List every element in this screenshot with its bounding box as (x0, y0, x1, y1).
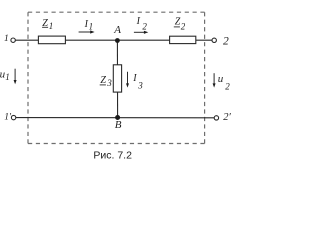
svg-text:I: I (132, 73, 137, 84)
terminal 1' (circle) (11, 115, 15, 119)
svg-text:3: 3 (137, 81, 143, 91)
wire bottom conductor 1' to 2' (16, 117, 215, 119)
label Z1 (42, 18, 53, 31)
svg-text:2′: 2′ (223, 112, 231, 123)
wire top conductor 1 to 2 (15, 39, 212, 41)
wire middle vertical branch A to B (116, 40, 118, 117)
svg-text:I: I (136, 16, 141, 27)
svg-text:1: 1 (89, 22, 94, 32)
terminal 1 (circle) (11, 38, 15, 42)
svg-text:3: 3 (106, 78, 112, 88)
label I3 with current arrow (126, 72, 143, 91)
impedance Z2 (box) (170, 36, 196, 43)
svg-text:2: 2 (181, 22, 186, 32)
svg-text:A: A (113, 24, 121, 36)
label u1 with voltage arrow (0, 68, 17, 84)
node B (junction dot) (115, 115, 120, 120)
impedance Z3 (box) (113, 65, 121, 92)
label u2 with voltage arrow (213, 73, 231, 92)
impedance Z1 (box) (38, 36, 65, 44)
svg-text:1′: 1′ (4, 112, 12, 122)
svg-text:2: 2 (225, 82, 230, 92)
terminal 2' (circle) (214, 116, 218, 120)
svg-text:2: 2 (142, 22, 147, 32)
label I1 with current arrow (79, 19, 95, 34)
svg-text:B: B (115, 119, 122, 131)
label Z3 (100, 75, 113, 88)
svg-text:2: 2 (223, 35, 229, 47)
dashed two-port network boundary box (28, 12, 205, 143)
label Z2 (174, 17, 186, 32)
svg-text:Рис. 7.2: Рис. 7.2 (93, 150, 132, 162)
svg-text:1: 1 (4, 34, 9, 44)
label I2 with current arrow (134, 16, 148, 34)
svg-text:1: 1 (49, 21, 54, 31)
node A (junction dot) (115, 38, 120, 43)
svg-text:1: 1 (5, 72, 10, 82)
svg-text:u: u (218, 73, 224, 85)
svg-text:Z: Z (100, 75, 106, 86)
terminal 2 (circle) (212, 38, 216, 42)
